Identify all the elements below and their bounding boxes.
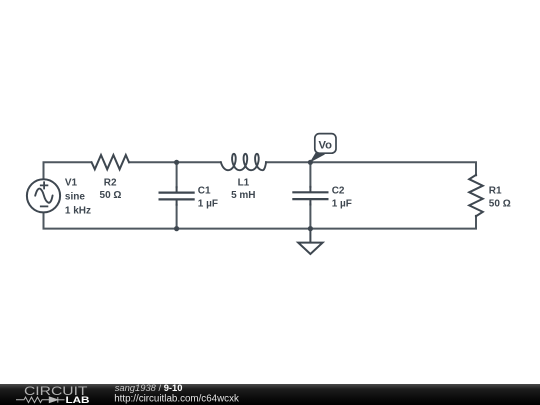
svg-text:L1: L1 [238,177,250,188]
resistor R2 [92,155,129,169]
wire C2 bottom lead [309,205,311,229]
svg-text:http://circuitlab.com/c64wcxk: http://circuitlab.com/c64wcxk [114,393,239,404]
svg-text:C1: C1 [198,185,211,196]
capacitor C2 plates [293,192,327,199]
svg-text:sine: sine [65,192,85,203]
wire C2 top lead [309,162,311,187]
svg-text:5 mH: 5 mH [231,190,255,201]
voltage source V1 circle [27,179,60,212]
wire bottom rail [44,213,477,229]
wire C1 bottom lead [176,205,178,229]
node dot Vo [308,160,313,165]
ground [298,243,322,254]
node dot C1 top [174,160,179,165]
svg-text:LAB: LAB [66,395,90,405]
wire L1 to node Vo [266,161,310,163]
logo schematic wire [16,397,65,403]
logo diode [49,397,57,403]
wire R2 to node A [130,161,177,163]
capacitor C1 plates [160,193,194,200]
voltage source V1 plus sign [40,181,48,189]
wire C1 top lead [176,162,178,187]
capacitor C1 leads [176,187,178,205]
svg-text:50 Ω: 50 Ω [489,198,511,209]
svg-text:V1: V1 [65,178,78,189]
net flag Vo box [315,134,336,154]
svg-text:sang1938 / 9-10: sang1938 / 9-10 [115,382,183,393]
voltage source V1 minus sign [40,205,48,207]
wire node Vo to R1 top corner [310,162,476,175]
svg-text:R1: R1 [489,185,502,196]
svg-text:R2: R2 [104,178,117,189]
node dot C1 bottom [174,226,179,231]
ground stub wire [309,229,311,242]
resistor R1 [469,175,483,216]
footer bar [0,384,540,405]
svg-text:50 Ω: 50 Ω [100,190,122,201]
svg-text:1 µF: 1 µF [332,198,352,209]
wire top-left corner from V1 to R2 [44,162,92,179]
net flag Vo pointer [310,151,325,163]
wire node A to L1 [177,161,221,163]
svg-text:1 kHz: 1 kHz [65,205,91,216]
node dot ground [308,226,313,231]
svg-text:C2: C2 [332,185,345,196]
voltage source V1 sine wave [35,189,52,203]
capacitor C2 leads [309,187,311,205]
svg-text:Vo: Vo [318,140,332,152]
svg-text:1 µF: 1 µF [198,198,218,209]
inductor L1 [221,154,266,170]
